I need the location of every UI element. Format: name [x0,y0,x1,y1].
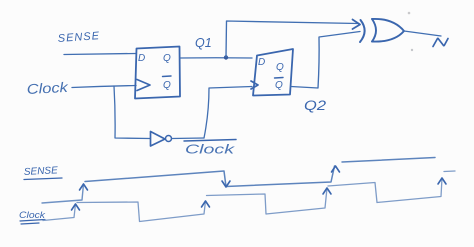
svg-text:Q1: Q1 [195,36,212,50]
svg-text:Q2: Q2 [304,98,327,113]
svg-text:Clock: Clock [185,143,235,157]
svg-text:Q: Q [163,53,171,64]
svg-text:Q: Q [163,80,171,91]
svg-text:SENSE: SENSE [24,165,59,178]
svg-text:Clock: Clock [26,79,69,97]
svg-text:D: D [258,57,265,68]
svg-text:Q: Q [275,80,283,91]
svg-text:SENSE: SENSE [57,30,100,45]
svg-text:Q: Q [276,62,284,73]
svg-text:D: D [138,53,145,64]
